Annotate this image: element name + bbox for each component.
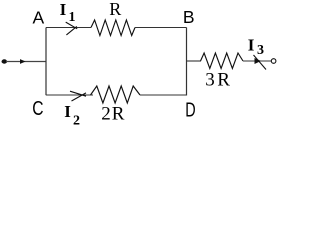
wire middle output segment xyxy=(187,60,202,62)
svg-text:2: 2 xyxy=(73,114,80,127)
svg-text:2R: 2R xyxy=(101,104,125,125)
wire top right segment xyxy=(135,27,187,29)
arrow I1 current xyxy=(66,22,78,35)
svg-text:1: 1 xyxy=(69,10,76,25)
svg-text:I: I xyxy=(60,0,67,19)
svg-text:R: R xyxy=(109,0,121,19)
wire bottom right segment xyxy=(140,94,187,96)
resistor 3R xyxy=(201,53,244,69)
svg-text:C: C xyxy=(32,97,43,119)
svg-text:3R: 3R xyxy=(205,69,232,90)
resistor 2R xyxy=(91,86,141,103)
wire input horizontal xyxy=(6,61,46,63)
svg-text:D: D xyxy=(185,98,195,121)
arrow I2 current xyxy=(70,91,86,101)
arrow I3 current xyxy=(255,58,262,64)
input terminal dot xyxy=(2,59,8,63)
svg-text:B: B xyxy=(183,7,195,27)
output terminal circle xyxy=(271,59,276,64)
wire right vertical B-D xyxy=(186,28,188,96)
svg-text:I: I xyxy=(64,102,71,121)
wire bottom left segment xyxy=(46,94,93,96)
wire output to terminal xyxy=(243,60,272,62)
svg-text:A: A xyxy=(33,8,45,28)
wire left vertical A-C xyxy=(45,28,47,96)
wire top left segment xyxy=(46,27,91,29)
input arrowhead xyxy=(20,59,26,64)
svg-text:3: 3 xyxy=(257,43,264,58)
resistor R xyxy=(91,20,135,36)
svg-text:I: I xyxy=(248,35,255,54)
